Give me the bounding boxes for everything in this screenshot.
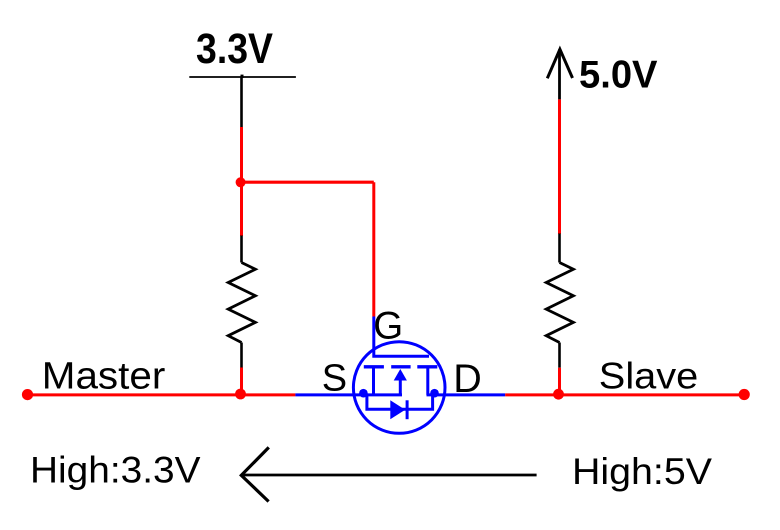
Q1 source contact [372, 367, 375, 395]
wire gate feed horizontal [242, 181, 374, 184]
power rail 3.3V bar [189, 76, 296, 78]
svg-text:5.0V: 5.0V [579, 53, 658, 96]
node left bus junction dot [235, 389, 246, 400]
svg-text:High:5V: High:5V [572, 450, 712, 492]
svg-text:High:3.3V: High:3.3V [30, 449, 201, 491]
node blue dot source [359, 389, 368, 398]
transistor Q1 body circle [353, 342, 445, 434]
wire Master bus red [28, 393, 296, 396]
diode D1 cathode bar [406, 400, 409, 419]
wire black above right resistor [558, 234, 561, 263]
svg-text:Master: Master [42, 355, 166, 397]
wire black below right resistor [558, 343, 561, 368]
svg-text:D: D [453, 357, 482, 401]
node right bus junction dot [553, 389, 564, 400]
direction arrow head [241, 447, 268, 501]
Q1 drain contact [426, 367, 429, 395]
wire red below right resistor [558, 368, 561, 395]
Q1 body arrow [394, 369, 407, 381]
svg-text:3.3V: 3.3V [196, 25, 273, 72]
node junction dot top [236, 177, 246, 187]
wire D blue [427, 393, 506, 396]
wire arrow shaft black [558, 49, 561, 99]
Q1 channel dash right [417, 365, 437, 368]
wire red right vertical [558, 99, 561, 234]
svg-text:G: G [373, 305, 403, 348]
resistor R1 [228, 263, 255, 343]
wire black above left resistor [240, 236, 243, 263]
Q1 channel dash middle [391, 365, 410, 368]
Q1 channel dash left [364, 365, 384, 368]
left terminal dot [22, 389, 33, 400]
resistor R2 [546, 263, 573, 343]
5.0V arrow head [547, 49, 572, 78]
right terminal dot [739, 389, 750, 400]
wire S blue [295, 393, 402, 396]
wire red below left resistor [240, 368, 243, 395]
direction arrow shaft [241, 474, 536, 477]
wire black below left resistor [240, 343, 243, 368]
wire red upper-left vertical [240, 127, 243, 236]
Q1 gate blue lead [374, 317, 429, 357]
power rail stub [241, 75, 244, 78]
Q1 body-diode loop [367, 395, 433, 409]
svg-text:Slave: Slave [599, 355, 699, 397]
Q1 body stub [399, 380, 402, 395]
diode D1 triangle [390, 400, 405, 419]
wire rail-down black [240, 77, 243, 128]
wire Slave bus red [505, 393, 744, 396]
svg-text:S: S [322, 358, 347, 400]
wire gate feed vertical red [372, 182, 375, 316]
node blue dot drain [430, 389, 439, 398]
